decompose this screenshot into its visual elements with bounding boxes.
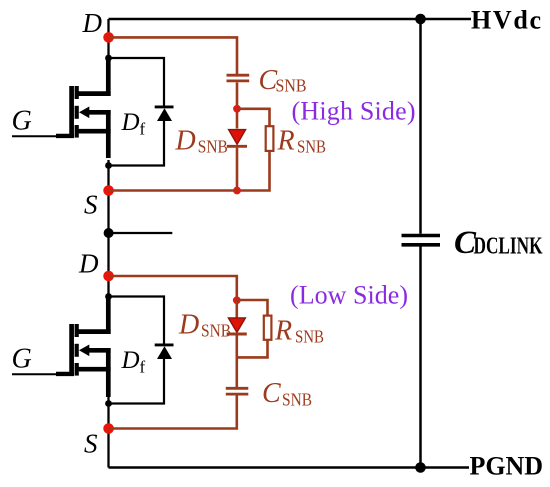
node PGND rail junction bbox=[415, 462, 426, 473]
label C_SNB (high) bbox=[259, 65, 307, 96]
wire DC-link branch upper bbox=[419, 19, 422, 234]
resistor R_SNB (low) bbox=[264, 316, 272, 340]
wire top rail HVdc bbox=[109, 18, 472, 21]
wire phase leg lower (source low to PGND) bbox=[107, 397, 109, 468]
resistor R_SNB (high) bbox=[266, 126, 274, 151]
label D_SNB (low) bbox=[178, 310, 231, 341]
transistor Q2 (low-side MOSFET) bbox=[56, 297, 111, 398]
node J3 drain/Df junction (low) bbox=[105, 293, 112, 300]
wire phase leg middle (source high to drain low) bbox=[107, 160, 109, 297]
node snubber top junction (low) bbox=[233, 296, 241, 304]
wire bottom rail PGND bbox=[109, 466, 470, 469]
wire junction to D_SNB (low) bbox=[236, 300, 239, 318]
node HVdc rail junction bbox=[415, 14, 426, 25]
label D_SNB (high) bbox=[175, 126, 228, 157]
wire R_SNB bottom (low) bbox=[237, 341, 268, 358]
capacitor C_SNB (high) bbox=[227, 75, 250, 81]
wire snubber top from D to junction (low) bbox=[109, 276, 237, 300]
svg-text:f: f bbox=[140, 120, 146, 139]
svg-text:G: G bbox=[12, 344, 32, 375]
svg-text:SNB: SNB bbox=[201, 321, 231, 341]
node snubber bottom junction (high) bbox=[233, 187, 241, 195]
svg-text:D: D bbox=[78, 249, 99, 279]
diode D_SNB (low) bbox=[227, 318, 247, 334]
diode Df (low) bbox=[155, 345, 174, 359]
wire snubber top from D to C_SNB (high) bbox=[109, 37, 237, 74]
wire D_SNB to bottom junction (high) bbox=[236, 148, 239, 191]
svg-text:SNB: SNB bbox=[282, 390, 312, 410]
wire Df branch bottom (low) bbox=[109, 358, 165, 404]
svg-text:D: D bbox=[121, 347, 140, 374]
node J2 source/Df junction (high) bbox=[105, 162, 112, 169]
svg-text:D: D bbox=[175, 126, 196, 157]
svg-text:R: R bbox=[277, 126, 295, 157]
svg-text:R: R bbox=[274, 316, 292, 347]
label Df (low body diode) bbox=[121, 347, 146, 377]
wire phase leg upper (drain high) bbox=[107, 19, 109, 58]
wire phase output stub bbox=[109, 232, 173, 234]
label Df (high body diode) bbox=[121, 109, 146, 139]
node phase output junction bbox=[104, 228, 114, 238]
svg-text:SNB: SNB bbox=[297, 137, 326, 157]
svg-text:S: S bbox=[84, 189, 98, 219]
node J1 drain/Df junction (high) bbox=[105, 55, 112, 62]
svg-text:(High Side): (High Side) bbox=[292, 96, 416, 125]
capacitor C_SNB (low) bbox=[226, 388, 249, 394]
wire Df branch top (low) bbox=[109, 297, 165, 344]
svg-text:SNB: SNB bbox=[295, 327, 324, 347]
label R_SNB (high) bbox=[277, 126, 327, 157]
svg-text:D: D bbox=[121, 109, 140, 136]
svg-text:PGND: PGND bbox=[470, 452, 544, 481]
wire junction to R_SNB (high) bbox=[237, 109, 270, 126]
wire D_SNB to C_SNB (low) bbox=[236, 335, 239, 387]
wire gate lead G (high) bbox=[12, 135, 57, 137]
wire C_SNB to S (low) bbox=[109, 395, 237, 428]
wire DC-link branch lower bbox=[419, 246, 422, 467]
svg-text:G: G bbox=[12, 106, 32, 137]
wire snubber bottom to S (high) bbox=[109, 189, 237, 192]
node J4 source/Df junction (low) bbox=[105, 400, 112, 407]
wire C_SNB to junction (high) bbox=[236, 82, 239, 128]
svg-text:D: D bbox=[82, 8, 103, 38]
diode D_SNB (high) bbox=[227, 130, 247, 147]
svg-text:f: f bbox=[140, 358, 146, 377]
svg-text:D: D bbox=[178, 310, 199, 341]
svg-text:(Low Side): (Low Side) bbox=[290, 281, 408, 310]
node snubber top junction (high) bbox=[233, 105, 241, 113]
wire Df branch bottom (high) bbox=[109, 120, 165, 166]
wire junction to R_SNB (low) bbox=[237, 300, 268, 315]
wire R_SNB bottom (high) bbox=[237, 151, 270, 191]
svg-text:C: C bbox=[262, 378, 281, 409]
node S (high source) bbox=[103, 185, 114, 196]
transistor Q1 (high-side MOSFET) bbox=[56, 58, 111, 158]
svg-text:HVdc: HVdc bbox=[471, 6, 541, 35]
diode Df (high) bbox=[155, 107, 174, 121]
capacitor C_DCLINK bbox=[402, 236, 441, 245]
svg-text:S: S bbox=[84, 429, 98, 459]
label R_SNB (low) bbox=[274, 316, 324, 347]
label C_SNB (low) bbox=[262, 378, 312, 410]
wire gate lead G (low) bbox=[12, 373, 57, 375]
node S (low source) bbox=[103, 423, 114, 434]
node D (low drain) bbox=[103, 271, 114, 282]
node D (high drain) bbox=[103, 32, 114, 43]
svg-text:SNB: SNB bbox=[276, 76, 307, 96]
svg-text:SNB: SNB bbox=[198, 137, 228, 157]
svg-text:DCLINK: DCLINK bbox=[474, 233, 543, 259]
label C_DCLINK bbox=[454, 225, 543, 261]
wire Df branch top (high) bbox=[109, 58, 165, 106]
